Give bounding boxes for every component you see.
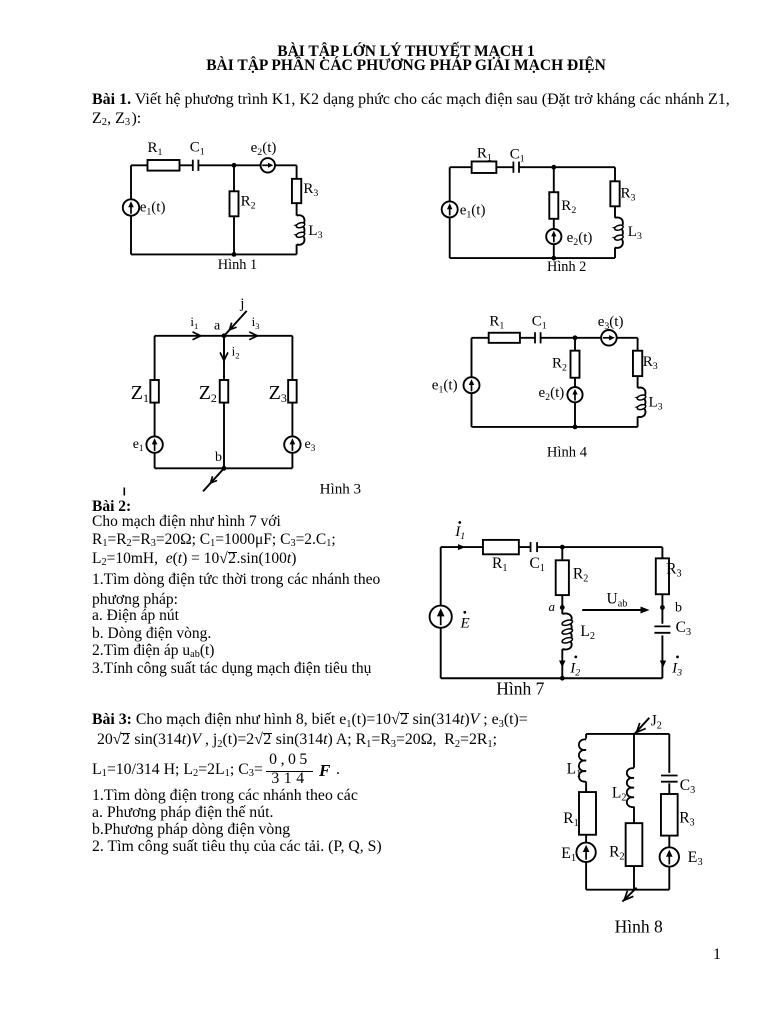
svg-text:e1(t): e1(t) <box>460 203 486 221</box>
svg-text:L3: L3 <box>628 224 642 242</box>
svg-text:C1: C1 <box>532 313 547 331</box>
svg-text:Hình 1: Hình 1 <box>218 257 257 273</box>
svg-text:Hình 7: Hình 7 <box>496 678 544 698</box>
svg-text:R1: R1 <box>477 146 492 164</box>
svg-text:R1: R1 <box>148 140 163 158</box>
svg-text:R3: R3 <box>303 181 318 199</box>
svg-text:Z1: Z1 <box>131 382 149 405</box>
svg-text:Hình 3: Hình 3 <box>320 481 362 497</box>
svg-text:i1: i1 <box>190 314 198 331</box>
svg-text:R3: R3 <box>643 354 658 372</box>
svg-text:e2(t): e2(t) <box>251 140 277 158</box>
svg-text:E3: E3 <box>688 849 703 868</box>
svg-text:Uab: Uab <box>607 591 628 610</box>
svg-text:C3: C3 <box>676 619 691 638</box>
svg-text:Z2: Z2 <box>199 382 217 405</box>
svg-text:R2: R2 <box>561 198 576 216</box>
svg-text:Hình 4: Hình 4 <box>547 445 588 461</box>
svg-text:e2(t): e2(t) <box>539 385 565 403</box>
svg-text:C1: C1 <box>530 555 545 574</box>
svg-text:I3: I3 <box>671 660 682 678</box>
svg-text:I1: I1 <box>454 524 465 542</box>
svg-text:C1: C1 <box>510 147 525 165</box>
svg-text:b: b <box>675 601 682 616</box>
svg-text:i3: i3 <box>252 314 260 331</box>
svg-text:i2: i2 <box>232 343 240 360</box>
svg-text:R1: R1 <box>489 313 504 331</box>
svg-text:j: j <box>239 296 244 312</box>
svg-text:L3: L3 <box>308 223 322 241</box>
svg-text:J2: J2 <box>651 713 662 732</box>
svg-text:a: a <box>549 599 556 614</box>
svg-text:e3(t): e3(t) <box>598 314 624 332</box>
svg-text:R3: R3 <box>679 810 694 829</box>
svg-text:R2: R2 <box>552 356 567 374</box>
svg-text:e2(t): e2(t) <box>567 230 593 248</box>
svg-text:Z3: Z3 <box>269 382 287 405</box>
svg-text:R2: R2 <box>609 843 624 862</box>
svg-text:e1(t): e1(t) <box>432 378 458 396</box>
svg-text:b: b <box>215 450 222 465</box>
svg-text:R1: R1 <box>563 810 578 829</box>
svg-text:e1(t): e1(t) <box>140 200 166 218</box>
svg-text:L3: L3 <box>649 395 663 413</box>
svg-text:E: E <box>460 616 470 632</box>
svg-text:R2: R2 <box>573 565 588 584</box>
svg-text:e1: e1 <box>133 437 144 453</box>
svg-text:e3: e3 <box>305 437 316 453</box>
svg-text:C1: C1 <box>190 140 205 158</box>
svg-text:L2: L2 <box>580 623 595 642</box>
svg-text:Hình 8: Hình 8 <box>615 917 663 937</box>
svg-text:E1: E1 <box>561 845 576 864</box>
svg-text:Hình 2: Hình 2 <box>547 259 586 275</box>
svg-text:I2: I2 <box>569 660 580 678</box>
svg-text:R3: R3 <box>666 561 681 580</box>
svg-text:R1: R1 <box>492 555 507 574</box>
svg-text:C3: C3 <box>680 777 695 796</box>
svg-text:L2: L2 <box>612 784 627 803</box>
svg-text:R3: R3 <box>621 186 636 204</box>
svg-text:R2: R2 <box>241 193 256 211</box>
svg-text:a: a <box>214 319 221 334</box>
